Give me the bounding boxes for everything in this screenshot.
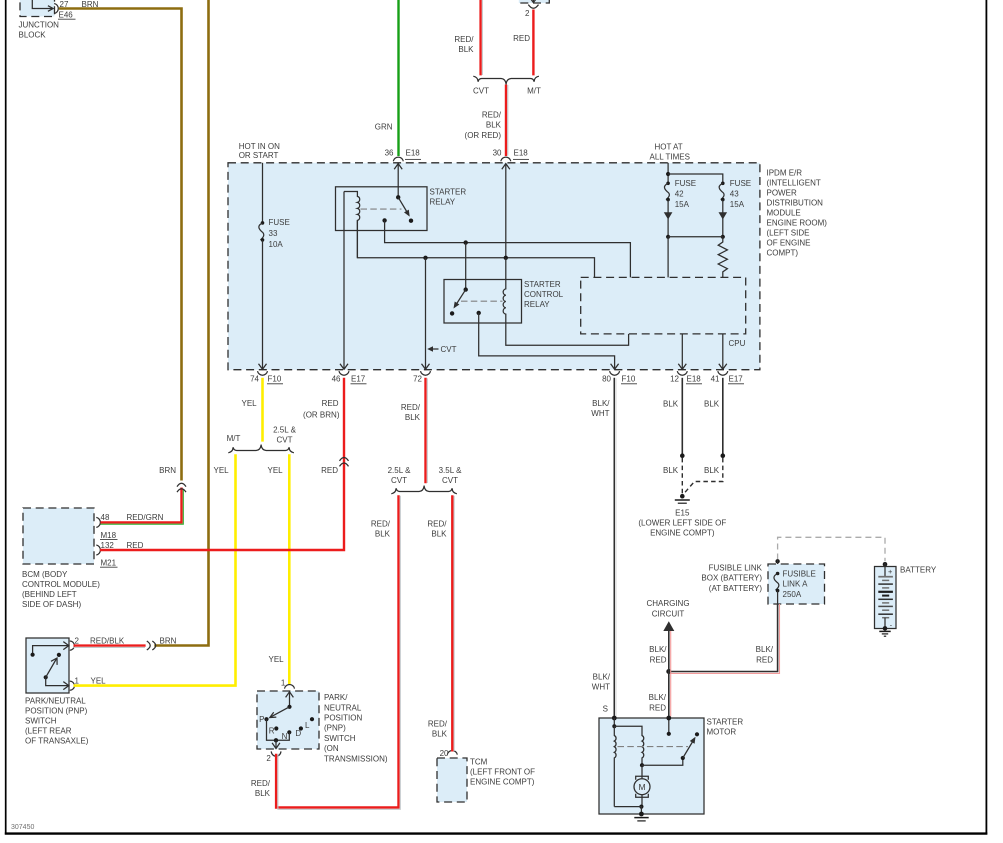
fuse 33 wire to pin 74 (262, 240, 264, 369)
brace split M/T / 2.5L&CVT (yellow) (228, 445, 294, 453)
svg-text:LINK A: LINK A (783, 580, 809, 589)
svg-text:GRN: GRN (375, 123, 393, 132)
svg-text:FUSIBLE: FUSIBLE (783, 569, 816, 578)
svg-text:BLOCK: BLOCK (19, 31, 47, 40)
solenoid switch pivot dot (681, 756, 685, 760)
svg-text:WHT: WHT (592, 683, 610, 692)
top connector internal down arrow (532, 0, 534, 2)
fuse 33 symbol (261, 221, 265, 225)
top connector box fragment (pin 2) (519, 0, 550, 3)
fuse 42/43 feed wire from top edge (667, 163, 669, 184)
svg-text:TCM: TCM (470, 757, 488, 766)
pin 36 connector arc (393, 157, 403, 161)
svg-text:YEL: YEL (214, 466, 230, 475)
starter motor box (599, 718, 704, 814)
svg-text:ALL TIMES: ALL TIMES (650, 153, 690, 162)
fuse 33 wire from top edge (262, 163, 264, 223)
svg-text:BRN: BRN (159, 466, 176, 475)
svg-text:BATTERY: BATTERY (900, 566, 937, 575)
red wire 2.5L&CVT branch to PNP trans pin 2 (276, 495, 398, 807)
svg-text:RED/: RED/ (251, 779, 271, 788)
svg-text:(OR RED): (OR RED) (465, 131, 502, 140)
starter relay coil (344, 192, 360, 258)
svg-text:(AT BATTERY): (AT BATTERY) (709, 584, 763, 593)
svg-text:BLK: BLK (432, 730, 448, 739)
BCM box (23, 508, 94, 564)
PNP trans pin 2 connector arc (271, 751, 281, 756)
E15 ground symbol (675, 499, 690, 501)
svg-text:JUNCTION: JUNCTION (19, 21, 60, 30)
wire: CPU to pin 41 (722, 334, 724, 369)
svg-text:(INTELLIGENT: (INTELLIGENT (767, 178, 821, 187)
svg-text:S: S (603, 705, 608, 714)
BCM pin 132 connector arc (96, 545, 100, 555)
svg-text:PARK/: PARK/ (324, 693, 348, 702)
junction dot (control relay common tap) (464, 240, 468, 244)
svg-text:RED: RED (321, 466, 338, 475)
pull-in winding bottom junction (640, 763, 644, 767)
svg-text:RED/: RED/ (454, 35, 474, 44)
svg-text:BLK: BLK (486, 121, 502, 130)
break symbol (BRN/RED at x=181.5) (177, 483, 186, 486)
svg-text:BLK: BLK (704, 400, 720, 409)
svg-text:STARTER: STARTER (524, 280, 561, 289)
control relay switch common wire (465, 243, 467, 290)
svg-text:YEL: YEL (269, 655, 285, 664)
svg-text:ENGINE COMPT): ENGINE COMPT) (650, 529, 715, 538)
svg-text:BLK/: BLK/ (592, 399, 610, 408)
starter relay fixed contact dot (409, 219, 413, 223)
svg-text:307450: 307450 (11, 824, 34, 831)
pin 30 internal wire with up arrow (505, 164, 507, 258)
svg-text:POSITION (PNP): POSITION (PNP) (25, 707, 88, 716)
svg-text:BLK: BLK (431, 530, 447, 539)
svg-text:RED/: RED/ (371, 520, 391, 529)
svg-text:BLK/: BLK/ (756, 645, 774, 654)
wire: coil bottom rail to CPU (357, 220, 594, 277)
control relay switch arm (456, 290, 466, 306)
svg-text:WHT: WHT (591, 409, 609, 418)
PNP switch (on transmission) box (257, 691, 319, 749)
solenoid mechanical link (dashed) (618, 746, 689, 748)
break symbol (RED at x=344) (340, 458, 349, 461)
E15 ground dot (680, 494, 685, 499)
PNP switch common contact dot (44, 675, 48, 679)
starter motor ground symbol (634, 817, 648, 819)
svg-text:80: 80 (602, 374, 611, 383)
PNP pin 2 connector arc (70, 641, 75, 650)
top connector pin 2 arc (528, 5, 538, 9)
svg-text:RELAY: RELAY (524, 300, 550, 309)
svg-text:BLK: BLK (704, 466, 720, 475)
svg-text:E18: E18 (687, 374, 702, 383)
svg-text:2.5L &: 2.5L & (388, 466, 411, 475)
PNP switch box (left rear of transaxle) (26, 638, 69, 693)
svg-text:YEL: YEL (268, 466, 284, 475)
svg-text:NEUTRAL: NEUTRAL (324, 703, 362, 712)
BLK/RED junction dot (666, 669, 671, 674)
green wire to pin 36 (397, 0, 399, 156)
resistor to CPU (718, 237, 727, 278)
BLK/RED wire fusible link to junction (669, 604, 778, 672)
svg-text:RED: RED (127, 541, 144, 550)
svg-text:RED/BLK: RED/BLK (90, 636, 125, 645)
svg-text:PARK/NEUTRAL: PARK/NEUTRAL (25, 697, 86, 706)
BLK/RED wire junction to starter B terminal (668, 672, 670, 719)
red wire M/T branch (RED) top (532, 10, 534, 76)
svg-text:72: 72 (413, 374, 422, 383)
svg-text:YEL: YEL (242, 399, 258, 408)
hold-in winding (left coil) (614, 726, 616, 806)
svg-text:CONTROL: CONTROL (524, 290, 564, 299)
svg-text:POWER: POWER (767, 188, 797, 197)
svg-text:FUSE: FUSE (675, 179, 696, 188)
battery top terminal dot (883, 562, 888, 567)
pin 80 connector arc (610, 371, 620, 375)
svg-text:ENGINE COMPT): ENGINE COMPT) (470, 777, 535, 786)
svg-text:RED/: RED/ (427, 520, 447, 529)
svg-text:E17: E17 (729, 374, 744, 383)
svg-text:BLK: BLK (375, 530, 391, 539)
svg-text:E17: E17 (351, 374, 366, 383)
CVT arrow label (427, 346, 433, 352)
starter relay switch arm (398, 197, 407, 212)
svg-text:CPU: CPU (729, 339, 746, 348)
fuse rail junction dots (666, 235, 670, 239)
svg-text:SWITCH: SWITCH (324, 734, 356, 743)
svg-text:(LOWER LEFT SIDE OF: (LOWER LEFT SIDE OF (638, 519, 726, 528)
svg-text:F10: F10 (268, 374, 282, 383)
starter relay output contact dot (382, 218, 386, 222)
svg-text:BLK/: BLK/ (649, 645, 667, 654)
svg-text:FUSE: FUSE (269, 218, 290, 227)
BLK wire pin 41 down (722, 378, 724, 456)
svg-text:33: 33 (269, 229, 278, 238)
PNP pin 1 connector arc (70, 681, 75, 690)
svg-text:CVT: CVT (473, 87, 489, 96)
svg-text:2: 2 (266, 754, 271, 763)
brace merge CVT/MT (473, 76, 539, 84)
svg-text:(LEFT FRONT OF: (LEFT FRONT OF (470, 767, 535, 776)
splice dot pin 12 wire (680, 453, 685, 458)
svg-text:12: 12 (670, 374, 679, 383)
PNP trans contact R (274, 726, 278, 730)
control relay fixed contact dot (450, 311, 454, 315)
starter motor internal: S lead down (613, 718, 615, 726)
svg-text:E46: E46 (59, 10, 74, 19)
wire: starter relay output to CPU (385, 220, 631, 277)
svg-text:(OR BRN): (OR BRN) (303, 410, 340, 419)
PNP trans pin 2 junction dot and arrow (274, 738, 278, 742)
svg-text:RED: RED (650, 655, 667, 664)
svg-text:43: 43 (730, 190, 739, 199)
svg-text:RED: RED (322, 399, 339, 408)
battery ground symbol (879, 630, 890, 632)
pin 72 connector arc (421, 371, 431, 375)
svg-text:P: P (259, 715, 264, 724)
starter motor ground dot (639, 812, 644, 817)
pin 46 connector arc (339, 371, 349, 375)
svg-text:D: D (295, 729, 301, 738)
dashed ground lead from pin 12 splice (681, 458, 683, 494)
svg-text:F10: F10 (622, 374, 636, 383)
frame left border (5, 0, 7, 835)
motor ground junction dot (639, 805, 643, 809)
svg-text:RED: RED (513, 34, 530, 43)
svg-text:132: 132 (101, 541, 115, 550)
TCM box (437, 758, 467, 802)
svg-text:BLK: BLK (663, 466, 679, 475)
svg-text:MOTOR: MOTOR (707, 728, 737, 737)
starter relay switch pivot dot (pin 36) (396, 195, 400, 199)
yellow wire from pin 74 (261, 378, 264, 442)
red wire pin 46 down to BCM 132 rail (100, 378, 344, 550)
S terminal dot (612, 716, 617, 721)
starter relay mechanical link (dashed) (361, 208, 402, 210)
junction block internal wire to pin 27 (32, 0, 53, 9)
svg-text:E15: E15 (675, 508, 690, 517)
motor M armature circle (641, 765, 643, 778)
pin 12 connector arc (677, 371, 687, 375)
svg-text:RED/GRN: RED/GRN (127, 513, 164, 522)
control relay output contact dot (477, 311, 481, 315)
BLK/WHT wire pin 80 to starter S (613, 378, 615, 716)
svg-text:(LEFT SIDE: (LEFT SIDE (767, 229, 810, 238)
starter relay U-relay box (336, 187, 428, 231)
svg-text:15A: 15A (675, 200, 690, 209)
svg-text:BCM (BODY: BCM (BODY (22, 570, 68, 579)
PNP trans internal wire P to N (267, 719, 290, 740)
red wire BCM 48 to BRN break (101, 488, 182, 523)
junction block pin 27 arrowhead (48, 6, 53, 12)
PNP trans contact N (287, 730, 291, 734)
PNP trans pin 1 connector arc (285, 685, 295, 689)
splice dot pin 41 wire (721, 453, 726, 458)
svg-text:20: 20 (440, 749, 449, 758)
svg-text:1: 1 (75, 676, 80, 685)
svg-text:MODULE: MODULE (767, 209, 801, 218)
charging circuit branch with up arrow (668, 631, 670, 672)
svg-text:74: 74 (250, 374, 259, 383)
wire: pin 72 down (425, 258, 427, 369)
svg-text:L: L (305, 721, 310, 730)
svg-text:CHARGING: CHARGING (646, 599, 689, 608)
PNP trans arm to P contact (271, 707, 290, 717)
svg-text:RED/: RED/ (482, 111, 502, 120)
svg-text:BLK: BLK (405, 413, 421, 422)
B terminal contact lead (668, 718, 670, 734)
fuse 42 output diode arrow (667, 200, 669, 237)
svg-text:YEL: YEL (91, 676, 107, 685)
svg-text:30: 30 (493, 149, 502, 158)
junction dot pin 72 tap (423, 256, 427, 260)
control relay coil (503, 258, 628, 346)
svg-text:36: 36 (385, 149, 394, 158)
svg-text:48: 48 (101, 513, 110, 522)
brace split 2.5L&CVT / 3.5L&CVT (391, 486, 457, 494)
svg-text:FUSE: FUSE (730, 179, 751, 188)
svg-text:TRANSMISSION): TRANSMISSION) (324, 754, 388, 763)
pin 30 connector arc (501, 157, 511, 161)
green stripe on RED/GRN wire (101, 489, 184, 524)
junction dot control relay coil tap (504, 256, 508, 260)
wire: CPU to pin 12 (681, 334, 683, 369)
svg-text:POSITION: POSITION (324, 714, 362, 723)
svg-text:HOT AT: HOT AT (655, 143, 683, 152)
BCM pin 48 connector arc (96, 517, 100, 527)
fusible link A symbol (776, 572, 780, 576)
control relay switch pivot dot (464, 287, 468, 291)
PNP switch internal wire pin 2 (33, 646, 69, 655)
svg-text:46: 46 (332, 374, 341, 383)
svg-text:DISTRIBUTION: DISTRIBUTION (767, 198, 824, 207)
PNP switch internal wire pin 1 (46, 677, 69, 685)
svg-text:BLK: BLK (255, 789, 271, 798)
svg-text:OR START: OR START (239, 151, 279, 160)
wire junction to solenoid switch (642, 758, 683, 765)
svg-text:M/T: M/T (527, 87, 541, 96)
svg-text:41: 41 (711, 374, 720, 383)
svg-text:E18: E18 (406, 149, 421, 158)
svg-text:COMPT): COMPT) (767, 249, 799, 258)
wire: pin 46 from coil top (343, 192, 345, 370)
IPDM E/R box (228, 163, 760, 370)
svg-text:RED/: RED/ (428, 720, 448, 729)
svg-text:HOT IN ON: HOT IN ON (239, 142, 280, 151)
svg-text:M: M (638, 782, 645, 792)
svg-text:2: 2 (525, 9, 530, 18)
PNP trans contact D (299, 726, 303, 730)
fusible link box top dot (775, 559, 779, 563)
svg-text:(LEFT REAR: (LEFT REAR (25, 727, 72, 736)
frame right border (985, 0, 987, 835)
svg-text:(PNP): (PNP) (324, 724, 346, 733)
battery plates (878, 576, 893, 578)
svg-text:BRN: BRN (160, 636, 177, 645)
svg-text:2: 2 (75, 636, 80, 645)
fuse 42 symbol (666, 182, 670, 186)
svg-text:CVT: CVT (441, 345, 457, 354)
svg-text:CVT: CVT (391, 476, 407, 485)
svg-text:+: + (888, 567, 893, 576)
solenoid fixed contact dot (695, 732, 699, 736)
svg-text:CONTROL MODULE): CONTROL MODULE) (22, 580, 100, 589)
pin 36 internal wire with up arrow (397, 164, 399, 198)
svg-text:(BEHIND LEFT: (BEHIND LEFT (22, 590, 77, 599)
svg-text:CVT: CVT (442, 476, 458, 485)
svg-text:2.5L &: 2.5L & (273, 426, 296, 435)
BRN wire from junction block (59, 9, 182, 481)
starter motor bottom lead and wires join (614, 807, 641, 814)
wire: control relay output to pin 80 (479, 313, 615, 369)
TCM pin 20 connector arc (447, 751, 457, 755)
svg-text:BLK/: BLK/ (649, 693, 667, 702)
svg-text:STARTER: STARTER (707, 717, 744, 726)
red wire RED/BLK (OR RED) to pin 30 (505, 85, 507, 157)
svg-text:250A: 250A (783, 590, 802, 599)
svg-text:10A: 10A (269, 240, 284, 249)
svg-text:RED/: RED/ (401, 403, 421, 412)
pin 74 connector arc (258, 371, 268, 375)
svg-text:STARTER: STARTER (430, 188, 467, 197)
svg-text:BLK/: BLK/ (593, 673, 611, 682)
B terminal dot (666, 716, 671, 721)
svg-text:42: 42 (675, 190, 684, 199)
svg-text:CVT: CVT (277, 436, 293, 445)
BLK wire pin 12 down (681, 378, 683, 456)
control relay mechanical link (dashed) (461, 300, 503, 302)
dashed ground lead from pin 41 splice (684, 458, 723, 494)
battery internal stem bottom (884, 618, 886, 629)
svg-text:3.5L &: 3.5L & (439, 466, 462, 475)
PNP trans pin 1 internal arrow (289, 692, 291, 707)
red wire 3.5L&CVT branch to TCM pin 20 (451, 495, 453, 751)
pin 41 connector arc (718, 371, 728, 375)
svg-text:RELAY: RELAY (430, 198, 456, 207)
PNP switch contact dot left (30, 653, 34, 657)
PNP switch contact dot right (57, 653, 61, 657)
fuse 43 output diode arrow (722, 200, 724, 237)
svg-text:BLK: BLK (663, 400, 679, 409)
battery to fusible link dashed wire (778, 537, 885, 561)
starter control relay box (444, 280, 522, 324)
svg-text:RED: RED (649, 703, 666, 712)
battery internal stem top (884, 562, 886, 577)
svg-text:SIDE OF DASH): SIDE OF DASH) (22, 600, 81, 609)
svg-text:RED: RED (756, 655, 773, 664)
junction block pin 27 connector arc E46 (54, 4, 58, 14)
yellow wire right branch to PNP trans pin 1 (288, 454, 291, 684)
wire fuse 42 branch to CPU (667, 237, 669, 278)
svg-text:IPDM E/R: IPDM E/R (767, 168, 803, 177)
PNP trans contact P (264, 717, 268, 721)
yellow wire PNP pin 1 to M/T branch (74, 454, 236, 685)
svg-text:OF ENGINE: OF ENGINE (767, 239, 811, 248)
svg-text:1: 1 (281, 678, 286, 687)
svg-text:N: N (282, 732, 288, 741)
battery box (875, 567, 897, 629)
red wire CVT branch (RED/BLK) top (479, 0, 481, 75)
PNP switch arm with open arrowhead (46, 659, 57, 678)
break symbol (RED-BLK/BRN at y=645.5) (147, 641, 150, 650)
svg-text:M/T: M/T (227, 434, 241, 443)
svg-text:(ON: (ON (324, 744, 339, 753)
svg-text:ENGINE ROOM): ENGINE ROOM) (767, 219, 828, 228)
fusible link box (battery) (768, 564, 825, 604)
svg-text:15A: 15A (730, 200, 745, 209)
battery bottom terminal dot (883, 626, 888, 631)
svg-text:E18: E18 (514, 149, 529, 158)
RED/BLK wire PNP pin 2 to break (74, 644, 146, 646)
fuse 43 symbol (721, 182, 725, 186)
svg-text:CIRCUIT: CIRCUIT (652, 609, 685, 618)
svg-text:BLK: BLK (458, 45, 474, 54)
junction block box (partial at top) (20, 0, 55, 17)
svg-text:BOX (BATTERY): BOX (BATTERY) (701, 574, 762, 583)
brown wire (x=208.5) from top to PNP break (154, 0, 208, 646)
svg-text:M18: M18 (101, 531, 117, 540)
pull-in winding (right coil) (614, 726, 643, 765)
solenoid switch arm (683, 741, 693, 758)
PNP trans pivot dot (287, 705, 291, 709)
svg-text:SWITCH: SWITCH (25, 717, 57, 726)
svg-text:M21: M21 (101, 558, 117, 567)
CPU box (dashed) (581, 277, 746, 334)
frame bottom border (5, 832, 988, 834)
svg-text:OF TRANSAXLE): OF TRANSAXLE) (25, 737, 89, 746)
svg-text:FUSIBLE LINK: FUSIBLE LINK (709, 563, 763, 572)
PNP trans contact L (310, 717, 314, 721)
